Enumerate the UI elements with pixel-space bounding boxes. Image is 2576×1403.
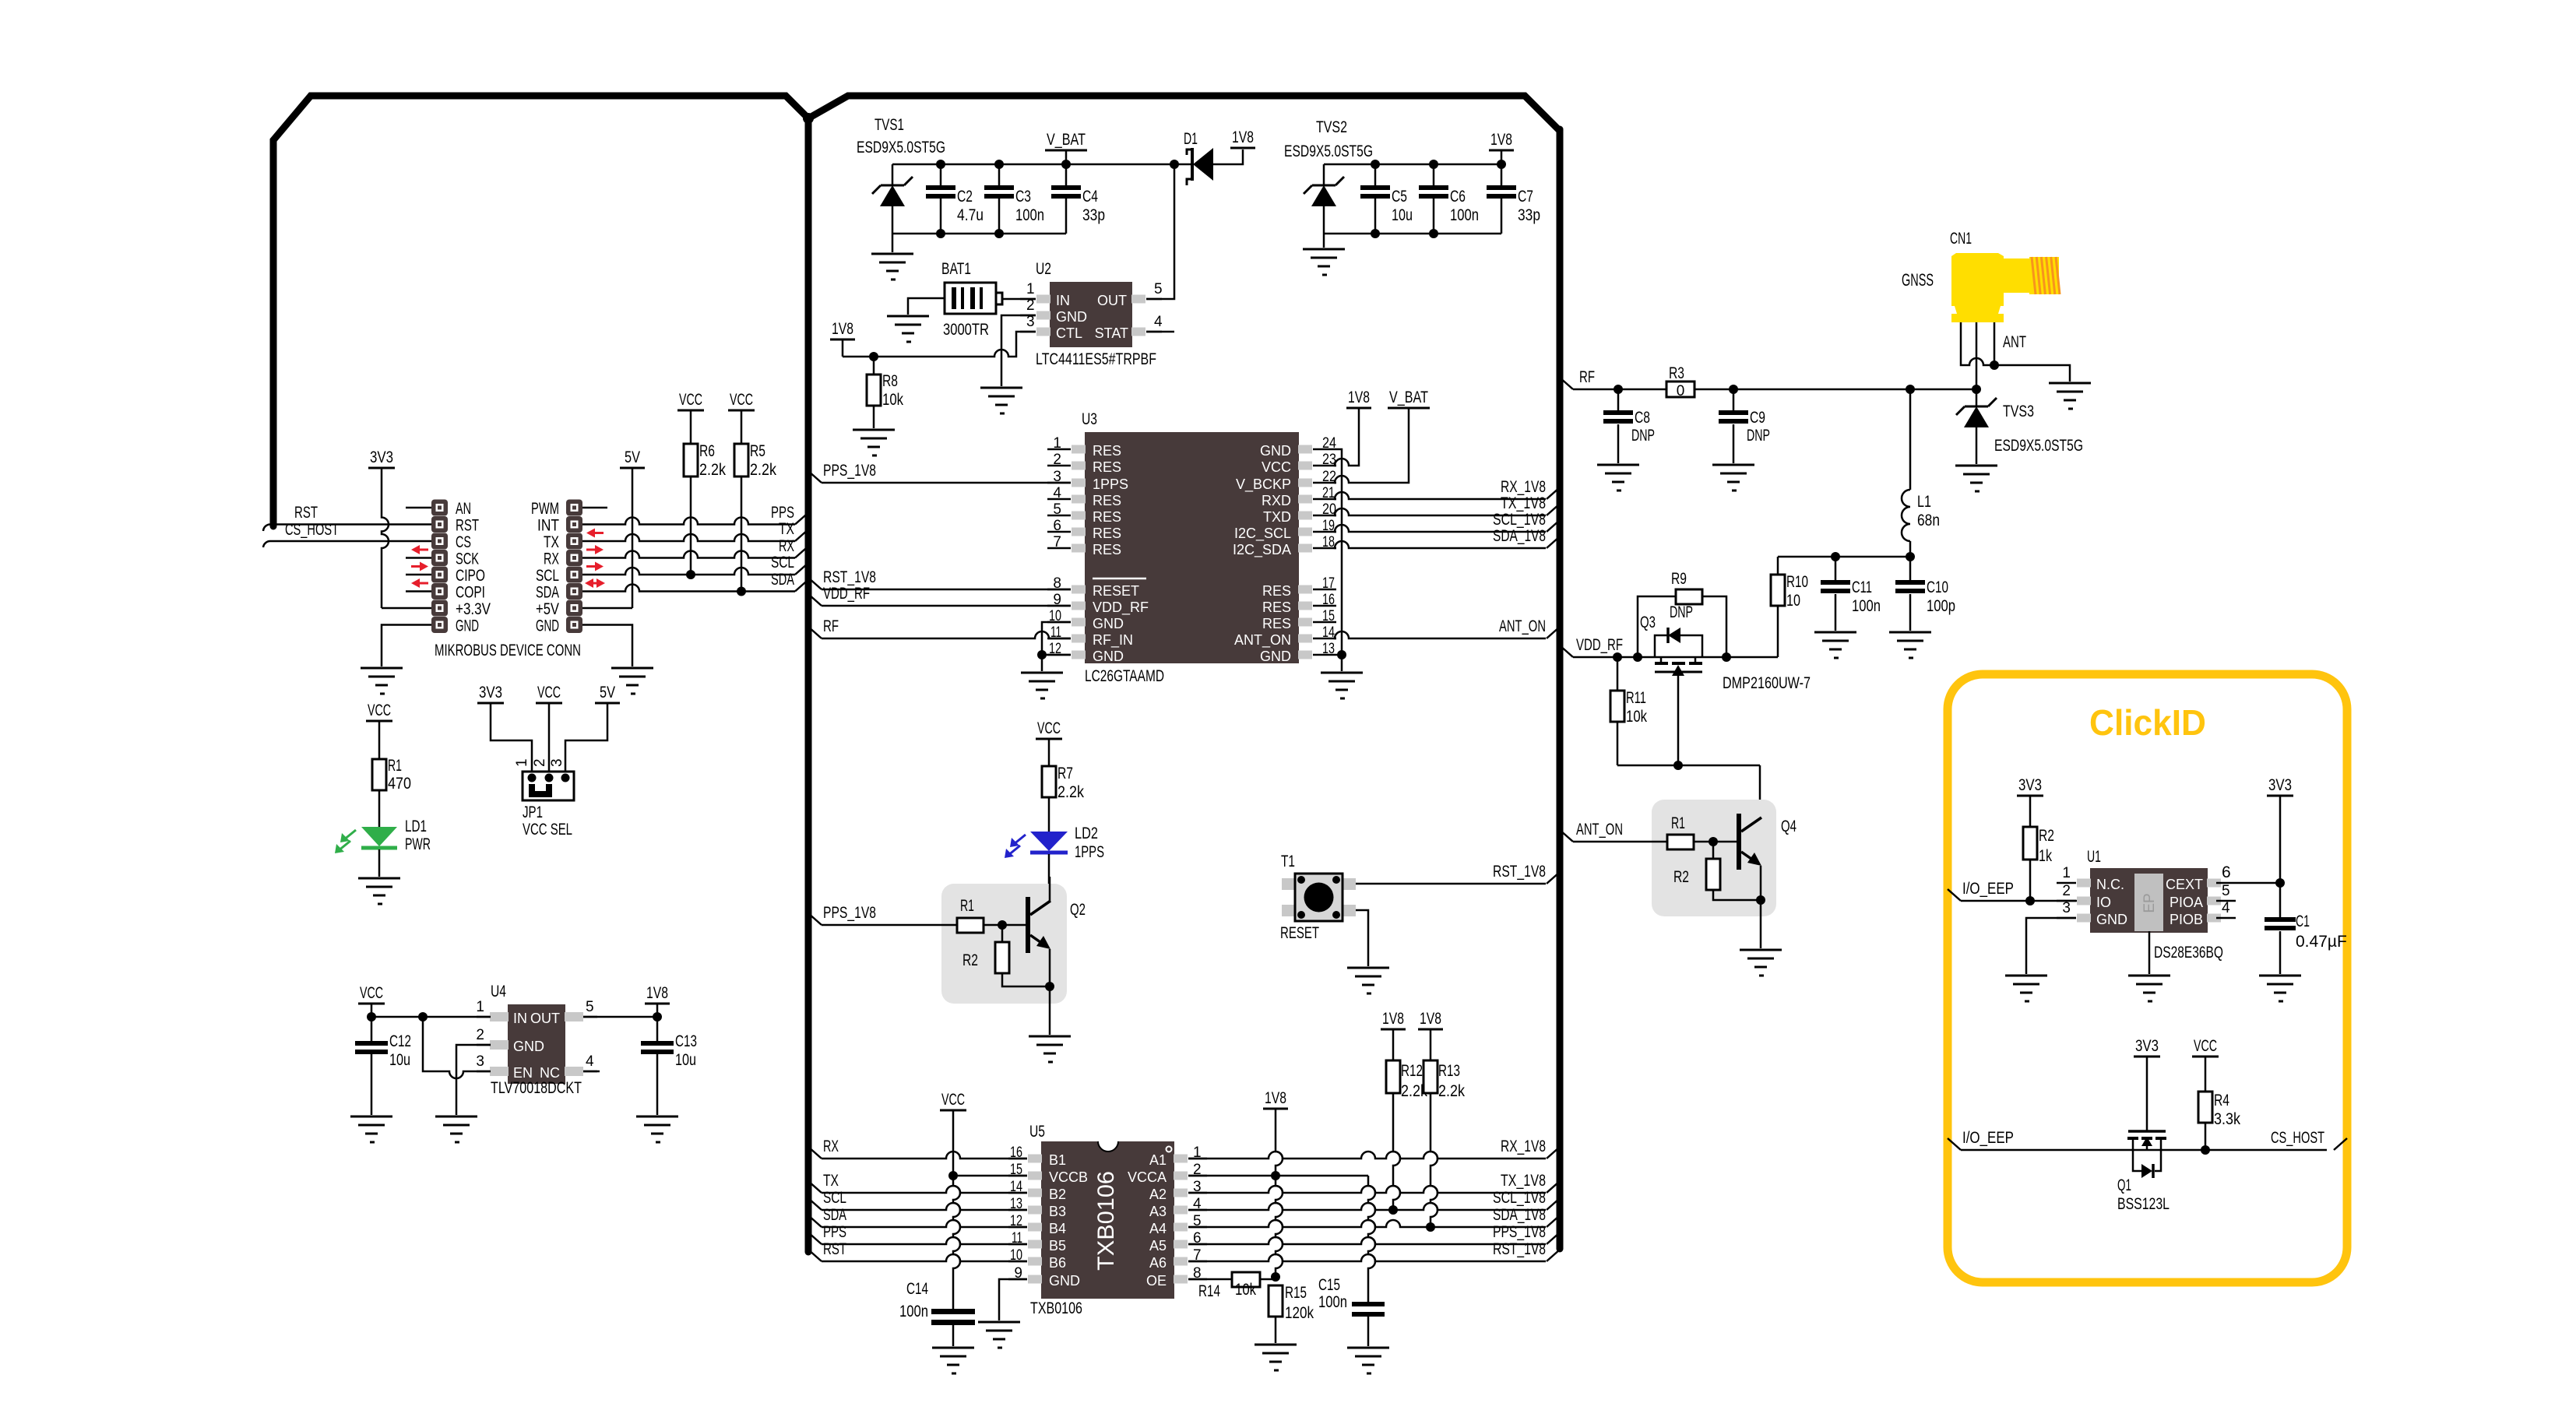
svg-text:U2: U2	[1036, 260, 1051, 278]
svg-text:C5: C5	[1392, 188, 1407, 206]
TVS diode TVS1	[892, 164, 894, 185]
gray box Q2	[941, 884, 1067, 1004]
svg-text:NC: NC	[540, 1065, 560, 1081]
junction C8	[1614, 385, 1623, 394]
net stub ANT_ON (U3)	[1547, 627, 1560, 638]
svg-text:470: 470	[388, 775, 411, 793]
svg-text:1: 1	[2062, 865, 2071, 881]
junction 1V8-VCCA	[1271, 1171, 1280, 1180]
svg-text:GNSS: GNSS	[1902, 270, 1934, 290]
svg-text:B4: B4	[1049, 1221, 1066, 1236]
svg-text:TVS2: TVS2	[1316, 118, 1347, 136]
svg-text:120k: 120k	[1285, 1304, 1314, 1322]
svg-text:C3: C3	[1015, 188, 1031, 206]
svg-text:B6: B6	[1049, 1255, 1066, 1271]
svg-text:RX: RX	[544, 550, 559, 568]
junction Q2 emitter	[1045, 982, 1054, 991]
svg-text:RX_1V8: RX_1V8	[1501, 478, 1546, 496]
ground (C11)	[1814, 632, 1856, 658]
wire Q4 collector down	[1759, 765, 1761, 818]
inductor L1 68n	[1909, 389, 1912, 490]
svg-text:N.C.: N.C.	[2096, 877, 2124, 892]
resistor R4 3.3k	[2205, 1057, 2207, 1092]
wire A4 to SDA_1V8	[1188, 1220, 1546, 1227]
wire 5V to +5V pin	[632, 468, 634, 608]
wire 3V3 to CEXT	[2279, 796, 2282, 883]
middle board outline	[808, 96, 1560, 131]
ground (R8)	[853, 430, 895, 455]
svg-text:1V8: 1V8	[1348, 389, 1370, 406]
wire R11 to Q4 collector	[1617, 765, 1760, 767]
junction Q2 base	[998, 920, 1007, 930]
svg-text:C7: C7	[1518, 188, 1533, 206]
capacitor C15 100n	[1352, 1302, 1385, 1306]
ground (right header)	[611, 668, 653, 694]
svg-text:RX: RX	[779, 537, 794, 555]
svg-text:TVS1: TVS1	[875, 116, 904, 134]
capacitor C14 100n	[931, 1309, 975, 1314]
ground (left header)	[361, 668, 403, 694]
wire 3V3 to Q1 gate	[2146, 1057, 2148, 1132]
svg-text:R1: R1	[1671, 814, 1685, 832]
wire JP1 pin3	[565, 703, 607, 778]
junction R2-IO	[2025, 896, 2035, 905]
wire U2 OUT up to rail	[1146, 164, 1174, 299]
svg-text:ANT: ANT	[2003, 333, 2026, 351]
wire VCCA branch to C15	[1368, 1176, 1375, 1302]
wire D1 to 1V8	[1213, 149, 1243, 164]
svg-text:VCC: VCC	[2194, 1037, 2217, 1055]
svg-text:RES: RES	[1093, 459, 1121, 475]
wire CN1 pin center RF	[1976, 322, 1978, 389]
svg-text:U3: U3	[1082, 410, 1097, 428]
resistor R2 (Q2)	[1001, 925, 1004, 942]
ground (Q2)	[1029, 1036, 1071, 1062]
junction L1 top	[1906, 385, 1915, 394]
pin stub SCK	[406, 557, 431, 559]
svg-text:GND: GND	[1093, 649, 1124, 664]
junction OUT-C13	[653, 1012, 662, 1021]
net stub SCL	[795, 563, 808, 575]
svg-text:VCC: VCC	[368, 701, 391, 719]
wire RF rail	[1573, 389, 1667, 391]
wire 1V8 to U2 CTL	[843, 332, 1036, 357]
svg-text:R10: R10	[1786, 573, 1808, 591]
rail RF filter	[1778, 556, 1910, 558]
capacitor C13 10u	[656, 1017, 659, 1041]
svg-text:EP: EP	[2141, 893, 2158, 912]
ground (C12)	[350, 1116, 392, 1142]
svg-text:1V8: 1V8	[1265, 1089, 1286, 1107]
svg-text:PPS_1V8: PPS_1V8	[1493, 1223, 1546, 1241]
wire T1 to ground	[1356, 910, 1368, 966]
wire A5 to PPS_1V8	[1188, 1237, 1546, 1244]
wire U5 GND pin9 to ground	[999, 1279, 1027, 1320]
LED LD2 1PPS (blue)	[1030, 832, 1068, 851]
svg-text:10u: 10u	[1392, 206, 1413, 224]
capacitor C1 0.47uF	[2279, 883, 2282, 917]
wire JP1 pin2	[548, 703, 551, 778]
svg-text:5: 5	[586, 999, 594, 1015]
svg-text:C15: C15	[1318, 1276, 1340, 1294]
left board outline	[273, 96, 808, 526]
svg-text:1PPS: 1PPS	[1075, 843, 1104, 861]
svg-text:DNP: DNP	[1631, 427, 1655, 445]
svg-text:GND: GND	[456, 617, 479, 635]
net stub ANT_ON (Q4)	[1560, 830, 1573, 842]
stub U4 NC	[583, 1071, 600, 1073]
wire Q4 emitter	[1760, 866, 1762, 900]
svg-text:RES: RES	[1093, 542, 1121, 557]
svg-text:GND: GND	[1056, 309, 1087, 325]
net stub SCL (U5)	[808, 1198, 822, 1210]
junction R8	[869, 352, 878, 361]
svg-text:LD1: LD1	[405, 818, 427, 835]
svg-text:1PPS: 1PPS	[1093, 476, 1128, 492]
svg-text:DS28E36BQ: DS28E36BQ	[2154, 944, 2223, 962]
svg-text:10k: 10k	[882, 391, 903, 409]
svg-text:R8: R8	[882, 372, 898, 390]
ground (C15)	[1347, 1348, 1389, 1373]
net stub TX_1V8 (U5)	[1547, 1181, 1560, 1193]
svg-text:OE: OE	[1146, 1273, 1167, 1289]
svg-text:3V3: 3V3	[479, 684, 502, 701]
svg-text:1: 1	[1026, 281, 1035, 297]
transistor Q2	[1002, 924, 1026, 927]
junction Q4 base	[1709, 837, 1718, 846]
wire ANT_ON to R1	[1573, 841, 1668, 843]
svg-text:R5: R5	[750, 442, 765, 460]
wire U3 GND pins to ground (left)	[1042, 622, 1071, 671]
svg-text:10k: 10k	[1626, 708, 1647, 726]
ground (C9)	[1712, 465, 1754, 491]
svg-text:I2C_SDA: I2C_SDA	[1233, 542, 1291, 558]
svg-text:ClickID: ClickID	[2089, 702, 2206, 743]
svg-text:10u: 10u	[389, 1051, 410, 1069]
wire PPS to B5	[822, 1237, 1027, 1244]
svg-text:C2: C2	[957, 188, 973, 206]
svg-text:R2: R2	[2039, 827, 2054, 845]
svg-text:GND: GND	[1260, 649, 1291, 664]
svg-text:BAT1: BAT1	[941, 260, 971, 278]
svg-text:RST_1V8: RST_1V8	[1493, 863, 1546, 881]
svg-text:+3.3V: +3.3V	[456, 600, 491, 618]
svg-text:TX: TX	[823, 1172, 839, 1190]
junction R4-CS_HOST	[2201, 1145, 2210, 1155]
wire Q2 collector	[1049, 877, 1051, 901]
svg-text:SDA_1V8: SDA_1V8	[1493, 1206, 1546, 1224]
red arrow SCK in	[417, 549, 428, 551]
wire T1 to RST_1V8	[1356, 883, 1546, 885]
svg-text:R11: R11	[1626, 689, 1646, 707]
svg-text:VCC: VCC	[941, 1091, 965, 1109]
svg-text:VDD_RF: VDD_RF	[1093, 600, 1149, 616]
svg-text:DNP: DNP	[1747, 427, 1770, 445]
svg-text:CN1: CN1	[1950, 230, 1972, 248]
middle outline right edge	[1557, 129, 1564, 1249]
svg-text:2: 2	[476, 1027, 484, 1043]
wire TVS2 to ground	[1323, 234, 1325, 248]
net stub RST_1V8 (U5)	[1547, 1250, 1560, 1261]
ground (U1 EP)	[2128, 976, 2170, 1001]
svg-text:PWM: PWM	[531, 500, 559, 518]
svg-text:JP1: JP1	[523, 803, 543, 821]
svg-text:LD2: LD2	[1075, 825, 1098, 842]
svg-text:0.47µF: 0.47µF	[2296, 933, 2347, 951]
ClickID box	[1948, 674, 2347, 1282]
wire VCCB pin	[953, 1175, 1027, 1177]
wire A6 to RST_1V8	[1188, 1254, 1546, 1261]
wire RX	[582, 551, 795, 558]
wire PPS_1V8 to R1	[822, 924, 958, 927]
wire battery negative to ground	[908, 298, 945, 315]
pin stub CIPO	[406, 574, 431, 576]
svg-text:5: 5	[1154, 281, 1163, 297]
ground (C10)	[1889, 632, 1931, 658]
wire U3 I2C_SDA to SDA_1V8	[1335, 541, 1546, 548]
resistor R1 (Q4 base)	[1667, 835, 1694, 849]
wire VCC down to C14	[953, 1176, 960, 1309]
svg-text:TLV70018DCKT: TLV70018DCKT	[491, 1079, 582, 1097]
resistor R11 10k	[1617, 657, 1619, 691]
svg-text:RES: RES	[1262, 616, 1291, 631]
ground (C14)	[932, 1348, 974, 1373]
wire RX to B1	[822, 1152, 1027, 1159]
svg-text:VCCA: VCCA	[1128, 1169, 1167, 1185]
svg-text:IN: IN	[513, 1011, 527, 1026]
svg-text:1V8: 1V8	[832, 320, 853, 338]
svg-text:I2C_SCL: I2C_SCL	[1234, 526, 1291, 542]
junction TVS3	[1972, 385, 1981, 394]
svg-text:RX: RX	[823, 1138, 839, 1155]
junction OE-1V8	[1271, 1272, 1280, 1282]
svg-text:GND: GND	[1049, 1273, 1080, 1289]
ground (C8)	[1597, 465, 1639, 491]
svg-text:R12: R12	[1401, 1062, 1423, 1080]
wire U2 GND to ground	[1001, 315, 1036, 386]
capacitor C5 10u	[1371, 160, 1380, 169]
svg-text:1: 1	[514, 758, 530, 767]
wire VCCA to 1V8	[1188, 1175, 1368, 1177]
svg-text:ESD9X5.0ST5G: ESD9X5.0ST5G	[1994, 437, 2083, 455]
junction EN branch	[418, 1012, 428, 1021]
junction L1 bottom	[1906, 552, 1915, 561]
ground (T1)	[1347, 968, 1389, 993]
wire 3V3 to +3.3V pin	[382, 468, 389, 608]
svg-text:A4: A4	[1149, 1221, 1167, 1236]
svg-text:VCC: VCC	[537, 684, 561, 701]
svg-text:VCC: VCC	[1037, 719, 1061, 737]
svg-text:R13: R13	[1438, 1062, 1460, 1080]
ground (U3 left)	[1021, 673, 1063, 698]
svg-text:SDA: SDA	[771, 571, 794, 589]
svg-text:4: 4	[586, 1053, 594, 1070]
svg-text:SDA: SDA	[823, 1206, 846, 1224]
svg-text:3: 3	[549, 758, 565, 767]
junction C11	[1831, 552, 1840, 561]
svg-text:TXD: TXD	[1263, 509, 1291, 525]
svg-text:3.3k: 3.3k	[2214, 1110, 2240, 1128]
net stub RST (U5)	[808, 1250, 822, 1261]
rail TVS2 bottom	[1324, 233, 1501, 235]
net stub RX (U5)	[808, 1147, 822, 1159]
gray box Q4	[1652, 800, 1776, 916]
svg-text:VDD_RF: VDD_RF	[1576, 636, 1623, 654]
svg-text:GND: GND	[536, 617, 559, 635]
resistor R9 DNP	[1638, 596, 1676, 657]
svg-text:VCC: VCC	[679, 391, 702, 409]
svg-text:C1: C1	[2296, 912, 2310, 930]
wire RST_1V8 to U3 pin8	[822, 589, 1071, 591]
resistor R1 470	[378, 721, 381, 759]
red arrow TX in	[593, 532, 604, 534]
net stub RF (edge)	[1560, 378, 1573, 389]
junction VCCB	[948, 1171, 958, 1180]
ground (R15)	[1255, 1345, 1297, 1370]
svg-text:5: 5	[2222, 883, 2230, 899]
svg-text:RF: RF	[1579, 368, 1595, 386]
wire LD2 to Q2 collector	[1048, 854, 1050, 901]
wire CS_HOST from left edge	[263, 541, 431, 547]
svg-text:TXB0106: TXB0106	[1030, 1299, 1082, 1317]
svg-text:DNP: DNP	[1670, 603, 1693, 621]
net stub PPS_1V8 (U3)	[808, 471, 822, 483]
resistor R2 1k	[2029, 796, 2032, 827]
red arrow COPI in	[417, 582, 428, 585]
svg-text:RX_1V8: RX_1V8	[1501, 1138, 1546, 1155]
capacitor C10 100p	[1909, 557, 1912, 580]
svg-text:100p: 100p	[1927, 597, 1955, 615]
svg-text:RES: RES	[1262, 600, 1291, 615]
svg-text:A5: A5	[1149, 1238, 1167, 1254]
net stub TX_1V8 (U3)	[1547, 504, 1560, 515]
red arrow CIPO out	[411, 565, 422, 568]
svg-text:C11: C11	[1852, 578, 1872, 596]
resistor R5 2.2k	[741, 410, 743, 444]
svg-text:3V3: 3V3	[2268, 776, 2292, 794]
svg-text:SCK: SCK	[456, 550, 479, 568]
net stub RST_1V8 (T1)	[1547, 872, 1560, 884]
junction VCC-C12	[367, 1012, 376, 1021]
capacitor C7 33p	[1497, 160, 1506, 169]
wire Q2 emitter	[1049, 949, 1051, 986]
wire A1 to RX_1V8	[1188, 1152, 1546, 1159]
ground (TVS1)	[871, 254, 913, 280]
transistor Q4	[1713, 841, 1737, 843]
svg-text:RST: RST	[823, 1240, 846, 1258]
svg-text:100n: 100n	[899, 1303, 928, 1320]
svg-text:3000TR: 3000TR	[943, 321, 989, 339]
svg-text:ANT_ON: ANT_ON	[1499, 617, 1546, 635]
wire I/O_EEP Q1 CS_HOST	[1961, 1149, 2327, 1152]
junction Q4 emitter	[1756, 895, 1765, 905]
junction Q3 drain	[1722, 652, 1731, 662]
net stub VDD_RF (U3)	[808, 594, 822, 606]
net stub SDA_1V8 (U5)	[1547, 1215, 1560, 1227]
svg-text:SCL: SCL	[823, 1189, 846, 1207]
svg-text:RES: RES	[1093, 509, 1121, 525]
svg-text:B3: B3	[1049, 1204, 1066, 1219]
svg-text:C6: C6	[1450, 188, 1466, 206]
svg-text:CEXT: CEXT	[2166, 877, 2203, 892]
wire U3 pin24 GND down right side	[1336, 449, 1342, 671]
svg-text:RES: RES	[1093, 526, 1121, 541]
svg-text:TX_1V8: TX_1V8	[1501, 494, 1546, 512]
svg-text:STAT: STAT	[1095, 325, 1128, 341]
svg-text:D1: D1	[1184, 130, 1198, 148]
junction R9 left	[1633, 652, 1642, 662]
svg-text:R6: R6	[699, 442, 715, 460]
svg-text:RF: RF	[823, 617, 839, 635]
wire GND left header to ground	[382, 625, 431, 667]
net stub SDA_1V8 (U3)	[1547, 536, 1560, 548]
resistor R13 2.2k	[1430, 1029, 1432, 1060]
svg-text:2.2k: 2.2k	[1438, 1082, 1465, 1100]
svg-text:10k: 10k	[1235, 1281, 1256, 1299]
svg-text:TVS3: TVS3	[2003, 403, 2034, 420]
svg-text:C8: C8	[1635, 409, 1650, 427]
svg-text:CS: CS	[456, 533, 471, 551]
wire TX to B2	[822, 1186, 1027, 1193]
svg-text:TXB0106: TXB0106	[1093, 1171, 1119, 1271]
svg-text:R2: R2	[1673, 868, 1689, 886]
capacitor C3 100n	[994, 160, 1004, 169]
wire OE to R14	[1188, 1278, 1233, 1281]
jumper JP1 VCC SEL	[523, 772, 574, 800]
svg-text:R4: R4	[2214, 1092, 2229, 1109]
svg-text:VCC: VCC	[1262, 459, 1291, 475]
LED LD1 PWR (green)	[361, 827, 397, 846]
capacitor C12 10u	[371, 1017, 373, 1041]
net stub CS_HOST	[2334, 1138, 2347, 1150]
svg-text:U1: U1	[2087, 848, 2101, 866]
svg-text:2.2k: 2.2k	[750, 461, 776, 479]
svg-text:2: 2	[2062, 883, 2071, 899]
svg-text:PPS_1V8: PPS_1V8	[823, 462, 876, 480]
wire SDA	[582, 585, 795, 592]
svg-text:100n: 100n	[1015, 206, 1044, 224]
ground (CN1)	[2049, 383, 2091, 409]
svg-text:1V8: 1V8	[1382, 1010, 1404, 1028]
svg-text:A1: A1	[1149, 1152, 1167, 1168]
wire VDD_RF rail	[1573, 656, 1778, 659]
resistor R12 2.2k	[1392, 1029, 1395, 1060]
capacitor C6 100n	[1429, 160, 1438, 169]
junction Q3 source node	[1673, 761, 1683, 770]
svg-text:PPS: PPS	[823, 1223, 846, 1241]
svg-text:CS_HOST: CS_HOST	[285, 521, 339, 539]
wire ANT to ground	[1994, 365, 2070, 382]
svg-text:RST: RST	[294, 504, 318, 522]
svg-text:RESET: RESET	[1280, 924, 1319, 942]
resistor R6 2.2k	[690, 410, 692, 444]
wire JP1 pin1	[491, 703, 532, 778]
wire GND right header to ground	[582, 625, 632, 667]
svg-text:OUT: OUT	[530, 1011, 560, 1026]
wire I/O_EEP to U1 IO	[1961, 900, 2077, 902]
svg-text:PPS_1V8: PPS_1V8	[823, 904, 876, 922]
resistor R10 10	[1777, 557, 1779, 575]
wire U4 GND pin to ground	[456, 1045, 491, 1115]
svg-text:1V8: 1V8	[1232, 128, 1254, 146]
wire U3 VCC pin23 to 1V8	[1335, 408, 1359, 466]
wire U3 ANT_ON	[1335, 631, 1546, 638]
svg-text:2.2k: 2.2k	[699, 461, 726, 479]
net stub SDA	[795, 580, 808, 592]
rail 1V8 (TVS2)	[1324, 164, 1501, 166]
svg-text:R15: R15	[1285, 1284, 1307, 1302]
net stub I/O_EEP (U1)	[1948, 889, 1961, 901]
